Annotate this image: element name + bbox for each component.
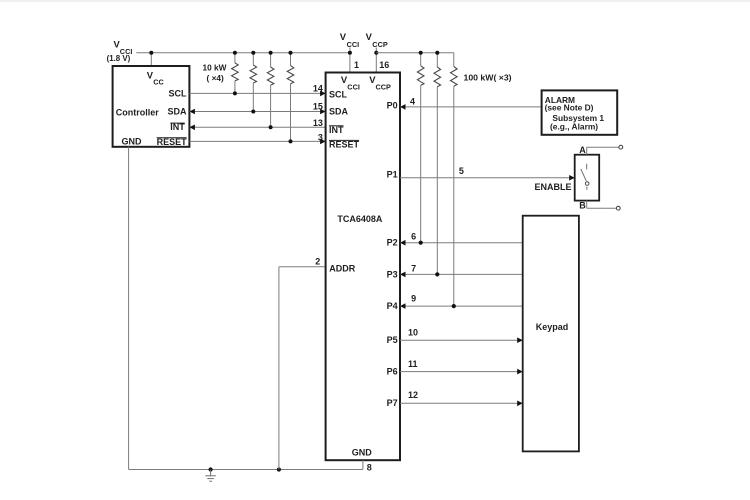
wire P6 [400,371,523,373]
junction dots on VCCI rail at pullups [233,51,293,55]
arrowhead SCL into IC [320,91,326,97]
wire VCCI rail [136,52,350,54]
svg-text:9: 9 [411,294,416,304]
junction dot VCCP pin16 [374,51,378,55]
resistor R2 10k (SDA pullup) [250,53,257,112]
svg-text:10: 10 [408,328,418,338]
svg-text:(e.g., Alarm): (e.g., Alarm) [550,122,598,132]
wire VCCP rail to pullups [376,52,454,54]
svg-text:INT: INT [170,122,185,132]
junction dot R2/SDA [251,110,255,114]
wire node B to terminal [587,201,617,209]
svg-text:Controller: Controller [116,107,159,117]
svg-text:16: 16 [379,60,389,70]
wire node A to terminal [587,147,619,155]
arrowhead SDA into IC [320,109,326,115]
switch internals [581,164,589,190]
svg-text:13: 13 [313,118,323,128]
terminal A circle [619,145,623,149]
svg-text:100 kW( ×3): 100 kW( ×3) [464,72,512,82]
arrowhead P4 into IC [400,303,406,309]
controller U1 box [113,66,190,147]
junction dots VCCP rail [419,51,440,55]
svg-text:RESET: RESET [329,140,360,150]
switch S1 box [575,155,600,201]
wire controller GND down [128,147,130,470]
resistor R3 10k (INT pullup) [267,53,274,128]
svg-text:(see Note D): (see Note D) [545,103,594,113]
svg-text:SCL: SCL [169,89,188,99]
controller INT pin label [170,122,185,132]
svg-text:3: 3 [318,133,323,143]
svg-text:P0: P0 [387,101,398,111]
svg-text:( ×4): ( ×4) [207,73,225,83]
svg-text:1: 1 [354,60,359,70]
svg-text:SDA: SDA [329,107,349,117]
IC VCCP pin label [369,74,391,92]
svg-text:CCI: CCI [347,40,360,49]
svg-text:(1.8 V): (1.8 V) [107,54,131,63]
svg-text:ADDR: ADDR [329,263,355,273]
arrowhead ENABLE into switch [569,175,575,181]
wire P7 [400,402,523,404]
resistor R4 10k (RESET pullup) [287,53,294,142]
wire VCCI to pin 1 [349,48,351,73]
svg-text:6: 6 [411,232,416,242]
wire VCCP to pin 16 [375,48,377,73]
IC U2 TCA6408A box [326,73,400,461]
arrowhead P2 into IC [400,240,406,246]
wire ground bus bottom [129,469,363,471]
terminal B circle [616,206,620,210]
junction dot VCCI pin1 [348,51,352,55]
resistor R5 100k (P2 pullup) [417,53,424,243]
svg-text:CCP: CCP [376,83,392,92]
wire P5 [400,339,523,341]
net VCCP pin16 label [366,31,388,49]
junction dot R6/P3 [435,272,439,276]
wire SDA [189,111,325,113]
wire INT [189,126,325,128]
svg-text:5: 5 [459,166,464,176]
svg-text:4: 4 [410,96,415,106]
wire P0 to alarm [400,106,542,108]
svg-text:ENABLE: ENABLE [534,182,571,192]
arrowhead P3 into IC [400,272,406,278]
arrowhead P0 into IC [400,104,406,110]
svg-text:CC: CC [153,78,164,87]
svg-text:P1: P1 [387,169,398,179]
junction dot R7/P4 [452,304,456,308]
arrowhead INT into controller [189,125,195,131]
junction dot ground symbol [209,467,213,471]
svg-text:P6: P6 [387,367,398,377]
wire P2 [400,242,523,244]
net VCCI pin1 label [340,31,359,49]
svg-text:SDA: SDA [167,107,187,117]
junction dot ADDR/ground bus [277,467,281,471]
svg-text:P7: P7 [387,398,398,408]
ground symbol [205,470,216,482]
svg-text:GND: GND [122,136,143,146]
svg-text:15: 15 [313,101,323,111]
svg-text:CCI: CCI [347,83,360,92]
controller VCC pin label [147,69,165,86]
svg-text:A: A [579,145,586,155]
wire RESET [189,140,325,142]
svg-text:P2: P2 [387,238,398,248]
svg-text:10 kW: 10 kW [203,63,227,73]
svg-text:GND: GND [352,448,373,458]
wire P3 [400,273,523,275]
junction dot VCCI-controller [149,51,153,55]
wire P1 to switch [400,177,575,179]
resistor R1 10k (SCL pullup) [232,53,239,94]
alarm subsystem box [542,90,618,134]
arrowhead P6 into keypad [517,369,523,375]
arrowhead P7 into keypad [517,401,523,407]
svg-text:P5: P5 [387,335,398,345]
junction dot R4/RESET [289,139,293,143]
arrowhead P5 into keypad [517,337,523,343]
wire VCC drop to controller [150,53,152,66]
svg-text:12: 12 [408,390,418,400]
svg-text:8: 8 [367,463,372,473]
wire ADDR [279,267,326,470]
arrowhead RESET into IC [320,139,326,145]
IC INT pin label [329,125,344,135]
junction dot R3/INT [269,125,273,129]
svg-text:14: 14 [313,83,323,93]
svg-text:2: 2 [315,256,320,266]
resistor R6 100k (P3 pullup) [434,53,441,275]
svg-text:B: B [579,201,586,211]
controller RESET pin label [157,137,188,147]
keypad box [523,216,579,452]
junction dot R5/P2 [419,241,423,245]
svg-text:CCP: CCP [372,40,388,49]
svg-text:11: 11 [408,359,418,369]
alarm text [545,95,605,132]
IC VCCI pin label [341,74,360,92]
IC RESET pin label [329,140,360,150]
net VCCI supply label [107,38,133,63]
arrowhead SDA into controller [189,109,195,115]
resistor R7 100k (P4 pullup) [450,53,457,306]
value label 10 kW x4 [203,63,227,84]
svg-text:P3: P3 [387,269,398,279]
wire IC GND pin 8 [362,460,364,469]
junction dot R1/SCL [233,91,237,95]
svg-text:TCA6408A: TCA6408A [337,214,383,224]
svg-text:P4: P4 [387,301,398,311]
wire SCL [189,92,325,94]
svg-text:SCL: SCL [329,90,348,100]
wire P4 [400,305,523,307]
svg-text:Keypad: Keypad [536,322,569,332]
svg-text:7: 7 [411,264,416,274]
